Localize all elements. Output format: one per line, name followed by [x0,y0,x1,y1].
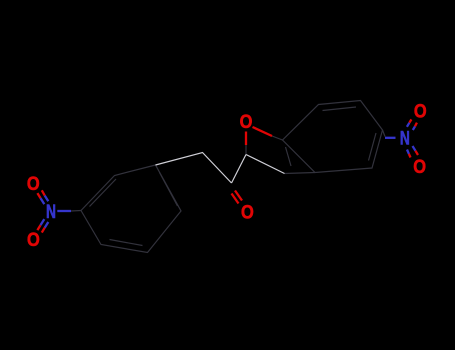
svg-text:N: N [46,202,56,223]
svg-text:O: O [27,230,40,251]
svg-text:O: O [413,157,426,178]
svg-text:O: O [240,112,253,133]
svg-text:O: O [414,101,427,122]
svg-text:N: N [400,129,410,150]
svg-text:O: O [241,202,254,223]
svg-text:O: O [27,174,40,195]
